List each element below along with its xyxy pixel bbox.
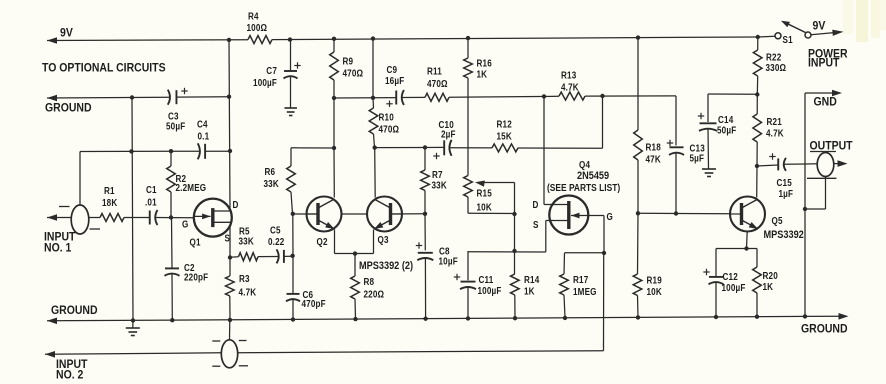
- jack J2 stem: [229, 320, 231, 340]
- svg-text:Q2: Q2: [317, 236, 328, 247]
- svg-text:G: G: [182, 219, 188, 230]
- label 2N5459: [577, 170, 610, 182]
- svg-text:GROUND: GROUND: [801, 323, 848, 336]
- svg-text:50µF: 50µF: [717, 125, 737, 136]
- capacitor C12 corner: [715, 249, 717, 277]
- wire 9V top rail: [47, 36, 775, 44]
- node dot rail C2: [170, 318, 174, 322]
- wire vertical x131: [132, 98, 133, 321]
- label R1 value: [102, 185, 118, 208]
- svg-text:2N5459: 2N5459: [577, 170, 610, 182]
- resistor R8: [351, 254, 360, 319]
- svg-text:R6: R6: [265, 166, 276, 177]
- svg-text:C5: C5: [270, 225, 281, 236]
- resistor R11: [425, 93, 449, 101]
- jack J1: [71, 205, 89, 234]
- resistor R10: [369, 98, 378, 148]
- svg-text:R12: R12: [497, 119, 512, 130]
- wire bottom ground rail: [47, 313, 849, 324]
- svg-text:10µF: 10µF: [439, 256, 459, 267]
- label Q4 G: [607, 211, 613, 222]
- wire Q2 emitter down: [335, 230, 374, 254]
- label C3 value: [166, 111, 186, 132]
- svg-text:Q1: Q1: [190, 237, 201, 248]
- svg-text:C7: C7: [266, 65, 277, 76]
- svg-text:2.2MEG: 2.2MEG: [176, 182, 207, 193]
- wire S1 to 9V arrow: [811, 30, 844, 36]
- wire gnd branch: [805, 90, 842, 317]
- capacitor C1: [150, 210, 158, 225]
- wire y97 line a: [334, 97, 396, 99]
- wire input1 to R1: [89, 217, 101, 219]
- svg-text:R1: R1: [104, 185, 115, 196]
- capacitor C13 drop: [675, 96, 677, 146]
- node dot 9Vrail/x229: [227, 38, 231, 42]
- svg-text:D: D: [233, 199, 239, 210]
- resistor R12: [492, 144, 518, 152]
- label R3 value: [239, 273, 257, 297]
- capacitor C8: [416, 242, 434, 260]
- node dot rail gndline: [803, 314, 807, 318]
- wire Q2-Q3 link: [342, 213, 368, 215]
- wire gate to R17: [564, 253, 604, 274]
- pot R15 bottom tie: [468, 197, 515, 214]
- wire 9V drop x229 (Q1 drain): [229, 40, 230, 210]
- label R13 value: [561, 70, 579, 93]
- wire emitter node: [716, 248, 757, 250]
- capacitor C12: [703, 269, 723, 285]
- label C14 value: [717, 114, 737, 135]
- svg-text:OUTPUT: OUTPUT: [810, 140, 853, 153]
- svg-text:10K: 10K: [477, 202, 493, 213]
- svg-text:1K: 1K: [524, 286, 535, 297]
- wire input1 left: [47, 214, 72, 221]
- node dot Q1 source: [228, 255, 232, 259]
- svg-text:MPS3392: MPS3392: [764, 229, 805, 241]
- label POWER INPUT: [808, 48, 848, 70]
- svg-text:50µF: 50µF: [166, 121, 186, 132]
- potentiometer R15: [464, 172, 485, 197]
- node dot y151/x131: [129, 149, 133, 153]
- capacitor C6: [286, 294, 300, 301]
- node dot rail R20: [755, 315, 759, 319]
- svg-text:R7: R7: [432, 169, 443, 180]
- label Q1: [190, 237, 201, 248]
- wire rail to R18: [637, 38, 639, 130]
- wire y97 line d: [585, 95, 676, 97]
- label R22 value: [766, 52, 787, 73]
- svg-text:R10: R10: [379, 112, 394, 123]
- label C10 value: [439, 119, 456, 139]
- node dot gate node: [602, 251, 606, 255]
- wire Q3 base to R7 node: [391, 213, 426, 215]
- label GROUND (lower right): [801, 323, 848, 336]
- wire y97 line c: [449, 95, 559, 98]
- svg-text:33K: 33K: [432, 180, 448, 191]
- svg-text:(SEE PARTS LIST): (SEE PARTS LIST): [547, 182, 620, 193]
- label C5 value: [268, 225, 284, 247]
- svg-text:15K: 15K: [497, 131, 513, 142]
- svg-text:47K: 47K: [646, 154, 662, 165]
- node dot R7 top: [423, 145, 427, 149]
- resistor R21: [753, 96, 762, 167]
- svg-text:5µF: 5µF: [690, 153, 705, 164]
- label MPS3392 (2): [359, 260, 413, 272]
- resistor R4: [248, 36, 272, 44]
- label R12 value: [497, 119, 513, 142]
- label OUTPUT: [810, 140, 853, 153]
- svg-text:4.7K: 4.7K: [239, 287, 257, 298]
- svg-text:C12: C12: [723, 271, 738, 282]
- label Q4: [579, 159, 590, 170]
- svg-text:R13: R13: [561, 70, 576, 81]
- node dot rail R3: [228, 318, 232, 322]
- wire Q4 D lead: [544, 96, 554, 204]
- node dot sleeve/gnd line: [803, 207, 807, 211]
- resistor R2: [167, 151, 176, 217]
- node dot rail C6: [291, 317, 295, 321]
- capacitor C8 wire: [424, 214, 426, 251]
- resistor R20: [753, 249, 762, 317]
- label C13 value: [690, 143, 705, 164]
- label INPUT NO.2: [56, 358, 87, 381]
- node dot Q3 collector node: [373, 145, 377, 149]
- label R20 value: [763, 270, 778, 292]
- svg-text:0.1: 0.1: [198, 131, 210, 142]
- svg-text:4.7K: 4.7K: [561, 82, 579, 93]
- svg-text:R18: R18: [646, 142, 661, 153]
- label C8 value: [439, 246, 459, 267]
- node dot rail C8: [423, 317, 427, 321]
- node dot rail/R10: [371, 36, 375, 40]
- svg-text:GROUND: GROUND: [51, 304, 98, 317]
- svg-text:470pF: 470pF: [302, 298, 327, 309]
- wire R21 to Q5 collector: [756, 166, 758, 198]
- label Q1 D: [233, 199, 239, 210]
- resistor R13: [559, 92, 585, 100]
- label C1 value: [145, 184, 157, 207]
- svg-text:G: G: [607, 211, 613, 222]
- wire upper ground rail: [47, 95, 229, 102]
- wire riser x602: [602, 96, 604, 148]
- wire C1 to Q1 gate: [156, 217, 195, 219]
- wire x334 down: [333, 98, 335, 148]
- label Q5: [772, 215, 783, 226]
- svg-text:C11: C11: [479, 274, 494, 285]
- wire R1 to C1: [124, 217, 149, 219]
- label Q3: [378, 234, 389, 245]
- label R4 value: [247, 11, 268, 33]
- node dot rail/R9: [332, 37, 336, 41]
- svg-text:4.7K: 4.7K: [766, 128, 784, 139]
- label R7 value: [432, 169, 448, 190]
- label Q2: [317, 236, 328, 247]
- svg-text:S1: S1: [783, 34, 793, 45]
- resistor R7: [421, 148, 430, 214]
- svg-text:10K: 10K: [647, 286, 663, 297]
- capacitor C14: [698, 113, 717, 131]
- resistor R1: [100, 214, 124, 222]
- node dot rail/C7: [288, 37, 292, 41]
- resistor R9: [330, 39, 339, 98]
- label R8 value: [364, 276, 385, 299]
- label R11 value: [427, 66, 448, 89]
- label R14 value: [524, 274, 539, 296]
- wire Q5 base line: [638, 212, 730, 214]
- label C7 value: [253, 65, 277, 88]
- node dot rail R8: [353, 317, 357, 321]
- resistor R19: [633, 213, 642, 317]
- svg-text:R14: R14: [524, 274, 539, 285]
- wire Q4 gate: [587, 216, 604, 254]
- svg-text:MPS3392 (2): MPS3392 (2): [359, 260, 413, 272]
- resistor R16: [464, 38, 473, 172]
- capacitor C13: [667, 140, 684, 155]
- label 9V (right): [813, 20, 826, 33]
- svg-text:R15: R15: [477, 188, 492, 199]
- label R19 value: [647, 275, 663, 297]
- svg-text:33K: 33K: [264, 178, 280, 189]
- node dot upper-gnd/x131: [130, 95, 134, 99]
- node dot y151/x229: [228, 149, 232, 153]
- svg-text:GROUND: GROUND: [45, 102, 92, 115]
- ground symbol C7: [284, 108, 297, 116]
- svg-text:C14: C14: [718, 114, 733, 125]
- label C6 value: [302, 289, 327, 309]
- svg-text:R16: R16: [477, 58, 492, 69]
- transistor Q5: [730, 197, 765, 232]
- node dot C15 tap: [755, 164, 759, 168]
- label C9 value: [385, 64, 405, 86]
- label GROUND (lower left): [51, 304, 98, 317]
- node dot R22/R21: [755, 92, 759, 96]
- wire Q2 base: [293, 213, 319, 215]
- wire y147 a: [375, 146, 444, 148]
- svg-text:470Ω: 470Ω: [343, 68, 364, 79]
- svg-text:100µF: 100µF: [478, 285, 502, 296]
- wire source node: [468, 251, 546, 253]
- wire input2 left: [45, 351, 222, 358]
- capacitor C3: [168, 88, 188, 105]
- label C15 value: [777, 177, 794, 199]
- node dot Q5 emitter: [744, 246, 748, 250]
- label R2 value: [176, 173, 207, 193]
- jack J1 stem: [79, 152, 81, 206]
- label SEE PARTS LIST: [547, 182, 620, 193]
- capacitor C7: [284, 62, 301, 78]
- jack J3 output: [817, 153, 834, 177]
- wire x293 link: [292, 214, 294, 257]
- node dot x334/y148: [332, 146, 336, 150]
- svg-text:0.22: 0.22: [268, 236, 284, 247]
- label R16 value: [477, 58, 492, 80]
- node dot y96/x603: [600, 94, 604, 98]
- label Q1 S: [225, 233, 231, 244]
- svg-text:R11: R11: [427, 66, 442, 77]
- node dot Q5 base node L: [636, 211, 640, 215]
- jack J2: [221, 340, 237, 368]
- svg-text:R20: R20: [763, 270, 778, 281]
- svg-text:16µF: 16µF: [385, 75, 405, 86]
- wire x334 to Q2 collector: [333, 148, 335, 198]
- svg-text:220pF: 220pF: [184, 272, 209, 283]
- node dot Q2 base: [291, 212, 295, 216]
- capacitor C4: [198, 143, 205, 159]
- wire R5 to C5: [258, 256, 278, 258]
- svg-text:C9: C9: [387, 64, 398, 75]
- node dot rail C11: [466, 316, 470, 320]
- resistor R6: [287, 166, 296, 214]
- pot R15 wiper wire: [481, 183, 515, 215]
- wire Q3 emitter down: [373, 230, 375, 254]
- svg-text:R8: R8: [364, 276, 375, 287]
- label C4 value: [197, 119, 209, 142]
- transistor Q1: [194, 199, 232, 237]
- ground symbol main: [126, 320, 140, 335]
- svg-text:R21: R21: [767, 116, 782, 127]
- wire C14 to ground: [707, 129, 710, 169]
- svg-text:R4: R4: [248, 11, 259, 22]
- svg-text:TO OPTIONAL CIRCUITS: TO OPTIONAL CIRCUITS: [42, 62, 166, 75]
- wire y95 supply link: [708, 93, 757, 95]
- wire jack J3 sleeve: [805, 177, 826, 210]
- capacitor C6 wire: [292, 257, 294, 294]
- svg-text:R19: R19: [647, 275, 662, 286]
- node dot rail/S1: [756, 35, 760, 39]
- label C12 value: [722, 271, 746, 293]
- transistor Q4: [549, 196, 588, 235]
- svg-text:100Ω: 100Ω: [247, 22, 268, 33]
- node dot C13/base: [674, 211, 678, 215]
- node dot rail/R16: [466, 36, 470, 40]
- wire C6 to gnd: [292, 299, 294, 320]
- jack J3 dashes: [807, 152, 837, 179]
- wire rail to R10: [372, 39, 374, 98]
- resistor R17: [560, 274, 569, 317]
- node dot rail R19: [636, 315, 640, 319]
- wire R10 to Q3 collector: [374, 148, 377, 198]
- wire Q1 source: [229, 226, 231, 258]
- capacitor C15 wire: [757, 165, 778, 166]
- label GND: [814, 96, 837, 109]
- resistor R18: [634, 130, 643, 213]
- node dot emitters R8: [353, 251, 357, 255]
- svg-text:D: D: [533, 199, 539, 210]
- wire C13 to base: [675, 153, 677, 214]
- svg-text:C15: C15: [777, 177, 792, 188]
- transistor Q2: [307, 197, 342, 232]
- svg-text:.01: .01: [145, 197, 157, 208]
- wire Q5 emitter down: [746, 232, 749, 249]
- svg-text:1MEG: 1MEG: [573, 286, 597, 297]
- capacitor C15: [769, 153, 786, 171]
- svg-text:33K: 33K: [239, 236, 255, 247]
- label Q4 D: [533, 199, 539, 210]
- label Q4 S: [533, 219, 539, 230]
- wire C11 to gnd: [467, 287, 469, 318]
- wire C11 corner: [467, 251, 469, 280]
- wire C14 corner: [707, 94, 709, 122]
- label TO OPTIONAL CIRCUITS: [42, 62, 166, 75]
- capacitor C11: [454, 274, 476, 289]
- svg-text:S: S: [533, 219, 539, 230]
- wire C15 to jack: [784, 163, 818, 166]
- wire output arrow: [834, 160, 848, 167]
- svg-text:1K: 1K: [477, 69, 488, 80]
- resistor R5: [230, 253, 258, 261]
- svg-text:Q4: Q4: [579, 159, 590, 170]
- svg-text:R22: R22: [766, 52, 781, 63]
- svg-text:C4: C4: [197, 119, 208, 130]
- label R21 value: [766, 116, 784, 138]
- jack J1 dash left: [59, 207, 100, 230]
- scan yellow streaks top right: [843, 0, 886, 42]
- node dot R10 top: [371, 96, 375, 100]
- svg-text:2µF: 2µF: [441, 129, 456, 140]
- wire jog to R6: [291, 148, 334, 166]
- wire gate drop to input2 line: [603, 253, 605, 351]
- svg-text:100µF: 100µF: [253, 77, 277, 88]
- svg-text:100µF: 100µF: [722, 282, 746, 293]
- capacitor C5: [277, 249, 284, 263]
- svg-text:1K: 1K: [763, 281, 774, 292]
- capacitor C7 wire: [290, 40, 292, 71]
- label R17 value: [573, 274, 597, 297]
- capacitor C10: [433, 140, 451, 159]
- node dot rail C12: [714, 315, 718, 319]
- label R15 value: [477, 188, 493, 213]
- wire Q4 S lead: [546, 221, 553, 253]
- svg-text:Q5: Q5: [772, 215, 783, 226]
- node dot y151/R2: [169, 149, 173, 153]
- wire C2 to gnd rail: [171, 274, 173, 321]
- wire C5 to Q2 base node: [284, 255, 292, 257]
- svg-text:GND: GND: [814, 96, 837, 109]
- resistor R14: [511, 252, 520, 318]
- node dot Q3 base node: [423, 212, 427, 216]
- svg-text:INPUT: INPUT: [808, 57, 839, 70]
- svg-text:18K: 18K: [102, 197, 118, 208]
- ground symbol C14: [702, 169, 716, 177]
- node dot upper-gnd/x229: [227, 95, 231, 99]
- switch S1: [775, 21, 811, 39]
- label R6 value: [264, 166, 280, 189]
- label C11 value: [478, 274, 502, 296]
- label C2 value: [184, 262, 209, 282]
- wire y147 b: [450, 147, 492, 149]
- node dot rail/R18: [636, 35, 640, 39]
- label Q1 G: [182, 219, 188, 230]
- label INPUT NO.1: [44, 231, 75, 255]
- node dot rail R14: [513, 316, 517, 320]
- node dot gate Q1: [169, 215, 173, 219]
- label GROUND (upper left): [45, 102, 92, 115]
- wire input2 right: [238, 351, 604, 353]
- svg-text:9V: 9V: [813, 20, 826, 33]
- svg-text:Q3: Q3: [378, 234, 389, 245]
- wire gnd line y151: [80, 150, 230, 152]
- capacitor C2 wire: [171, 218, 174, 269]
- wire wiper down: [514, 214, 516, 251]
- svg-text:S: S: [225, 233, 231, 244]
- node dot Q4 drain top: [542, 94, 546, 98]
- node dot Q2 base / C5: [290, 254, 294, 258]
- jack J2 dashes: [212, 341, 248, 367]
- resistor R3: [226, 258, 235, 320]
- capacitor C2: [165, 268, 180, 275]
- node dot rail x133: [131, 318, 135, 322]
- svg-text:330Ω: 330Ω: [766, 62, 787, 73]
